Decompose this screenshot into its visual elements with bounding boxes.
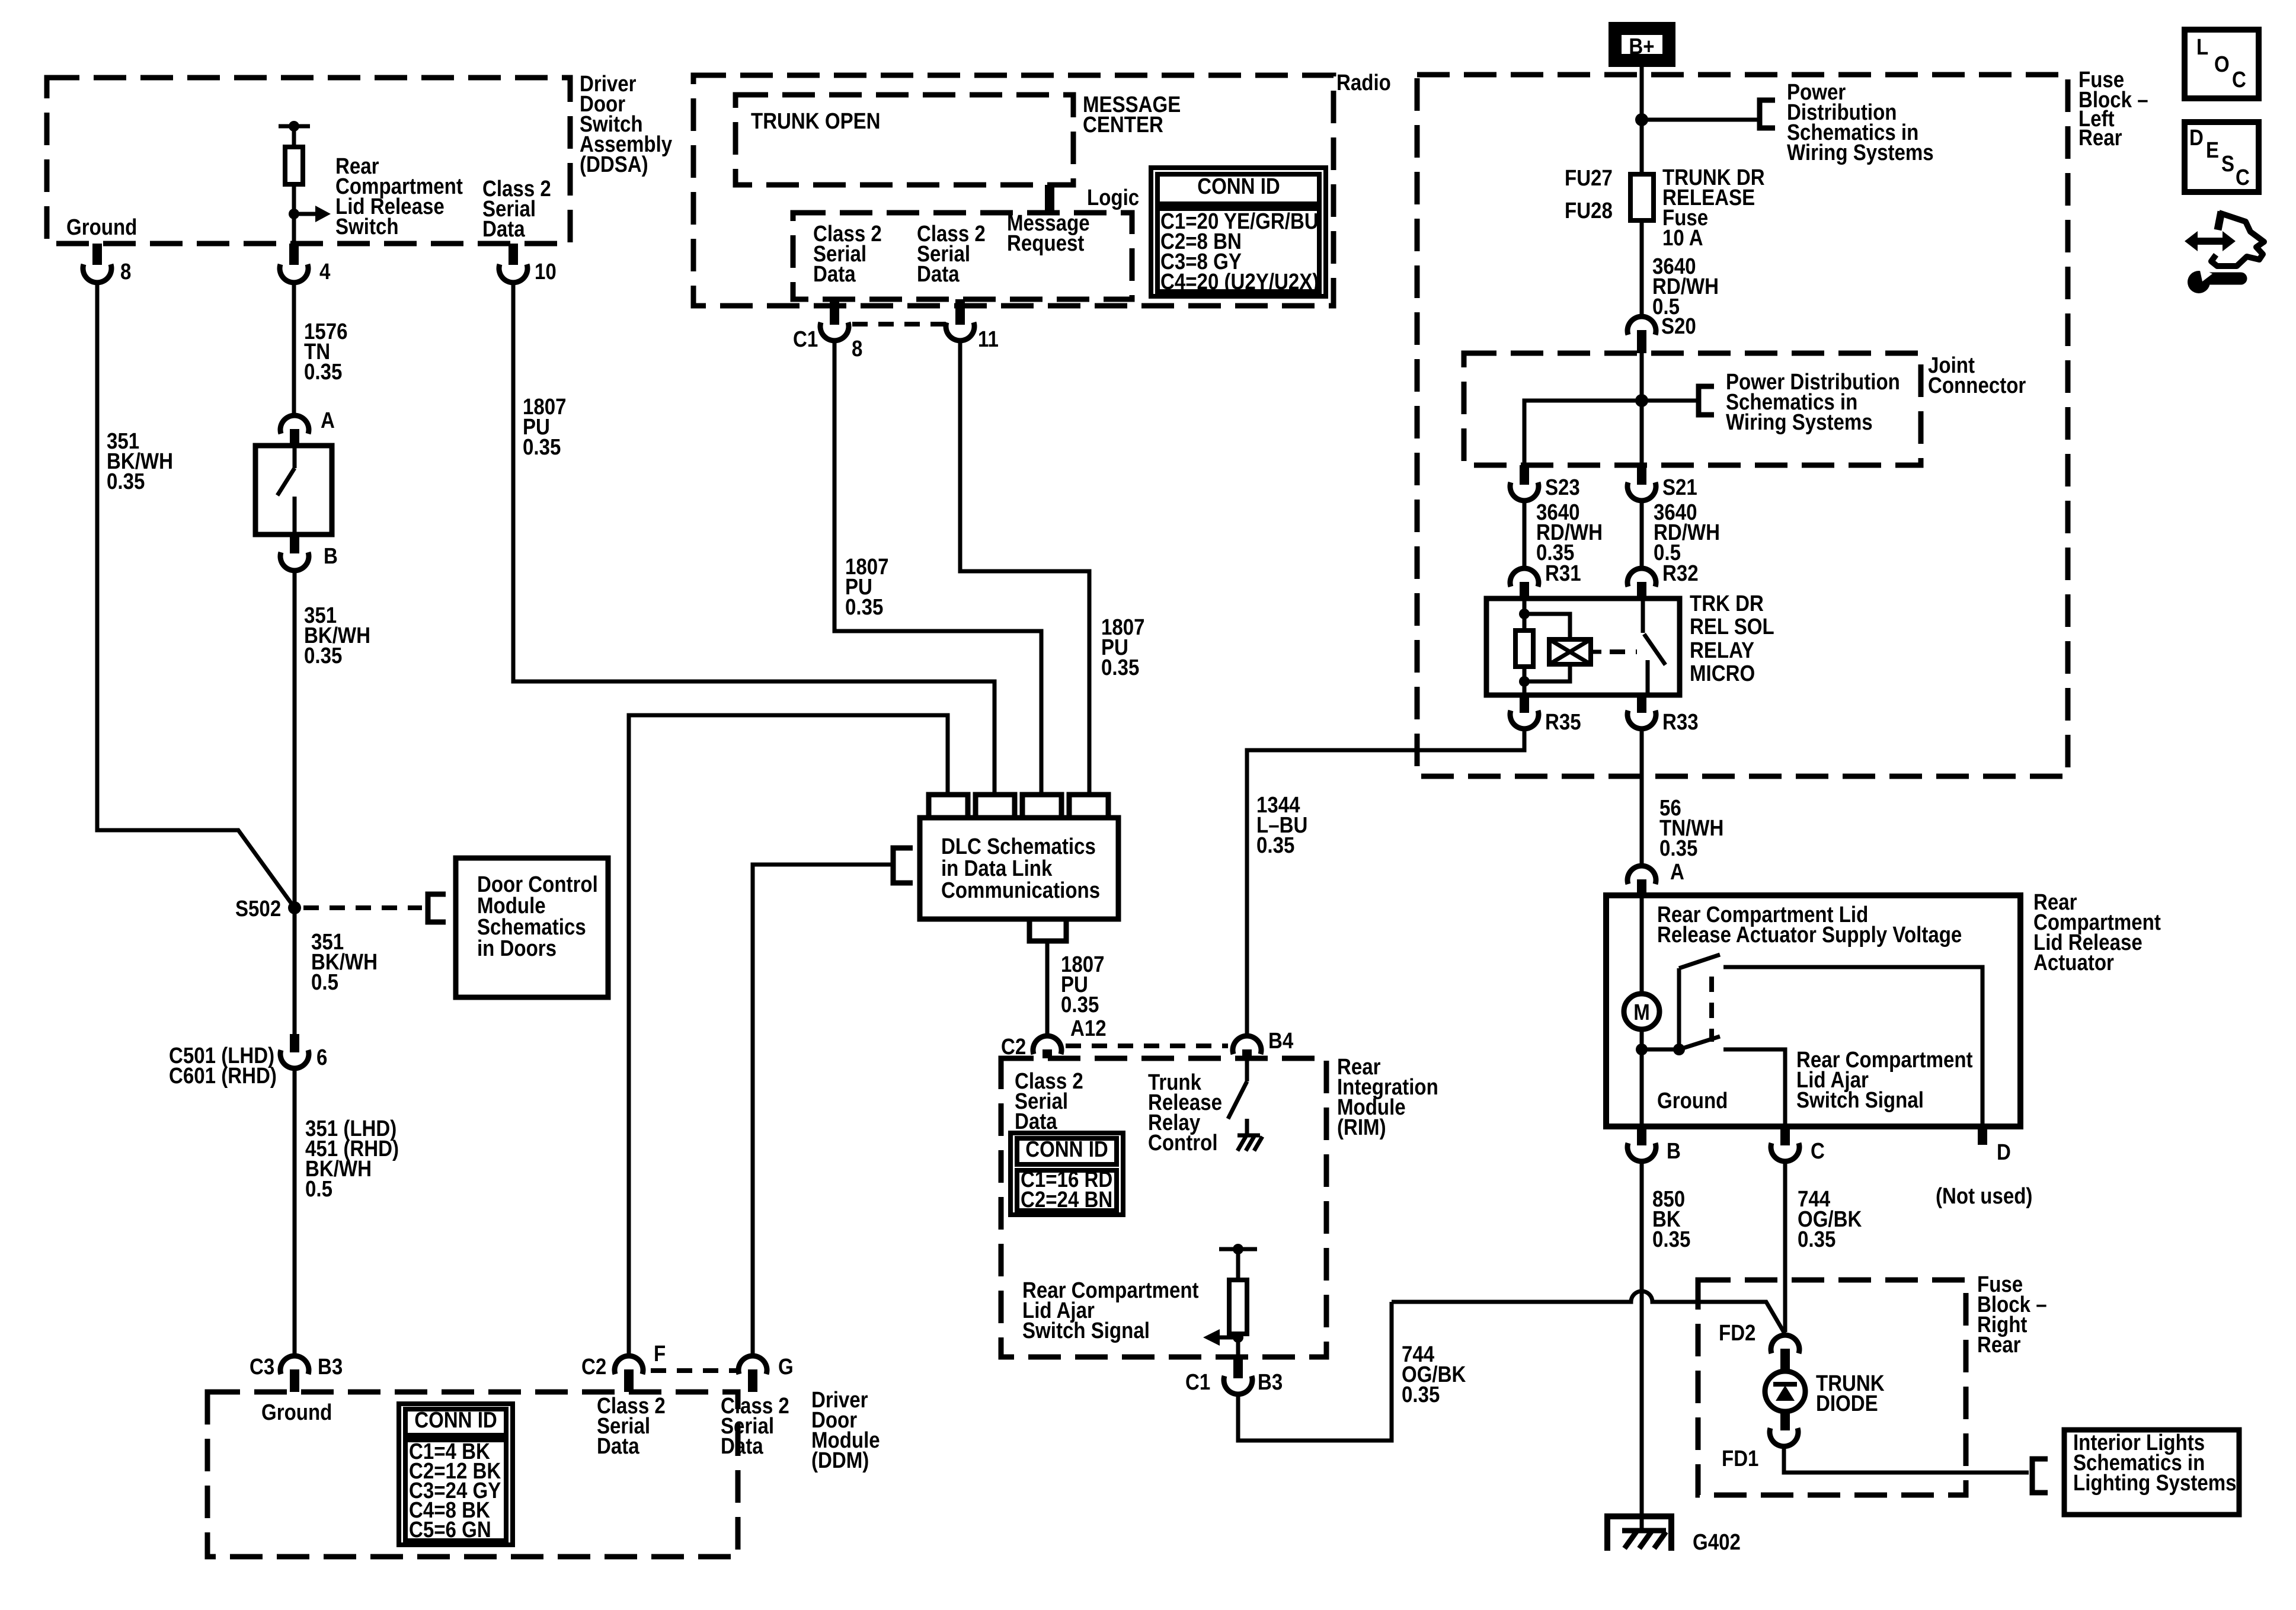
svg-text:A: A — [1670, 859, 1684, 885]
dashed link coil to contacts — [1610, 649, 1637, 654]
label 1344 L-BU 0.35 — [1256, 792, 1307, 858]
svg-text:D: D — [2189, 125, 2204, 151]
relay contacts switch — [1643, 598, 1665, 695]
svg-text:C: C — [2232, 67, 2246, 92]
svg-text:(DDSA): (DDSA) — [580, 152, 648, 177]
label 351 BK/WH 0.5 — [311, 929, 378, 995]
label 351 (LHD) 451 (RHD) BK/WH 0.5 — [305, 1116, 399, 1202]
svg-text:CENTER: CENTER — [1083, 112, 1163, 137]
switch box Rear Compartment Lid Release Switch — [255, 446, 332, 534]
svg-text:C2: C2 — [581, 1354, 606, 1379]
svg-text:S502: S502 — [235, 896, 281, 921]
svg-text:0.35: 0.35 — [1256, 833, 1294, 858]
svg-text:FD2: FD2 — [1719, 1320, 1755, 1346]
svg-text:L: L — [2196, 34, 2208, 60]
wire 744 horizontal with hop — [1392, 1291, 1785, 1333]
pin 10 connector — [499, 244, 557, 284]
box DLC Schematics reference — [920, 818, 1118, 919]
svg-text:Release Actuator Supply Voltag: Release Actuator Supply Voltage — [1657, 922, 1962, 948]
dashed link S502 to Door Control Module — [303, 905, 422, 910]
svg-text:0.35: 0.35 — [304, 359, 342, 385]
label 1807 PU 0.35 (DLC to RIM) — [1061, 952, 1105, 1017]
svg-text:Ground: Ground — [261, 1400, 332, 1425]
dashed link C1 to 11 — [852, 322, 946, 327]
splice S502 — [235, 896, 301, 921]
svg-text:A12: A12 — [1070, 1016, 1107, 1041]
svg-text:Rear: Rear — [2078, 125, 2122, 151]
wire ground 351 from pin 8 to S502 — [97, 283, 295, 908]
svg-text:FU28: FU28 — [1565, 198, 1613, 223]
svg-text:R31: R31 — [1545, 561, 1581, 586]
pin C2/F connector (DDM) — [581, 1341, 666, 1392]
power B+ terminal — [1615, 28, 1669, 60]
svg-text:MICRO: MICRO — [1690, 661, 1755, 686]
svg-text:4: 4 — [319, 259, 331, 284]
svg-text:Logic: Logic — [1087, 185, 1139, 210]
wire 1576 TN from pin 4 to A — [292, 283, 296, 415]
svg-text:0.5: 0.5 — [305, 1176, 332, 1202]
pin 11 connector (radio) — [946, 299, 999, 352]
box Fuse Block Left Rear — [1417, 67, 2148, 776]
svg-text:C: C — [2236, 165, 2250, 190]
label 351 BK/WH 0.35 (ground wire) — [107, 428, 173, 494]
svg-text:0.35: 0.35 — [1101, 655, 1139, 680]
icon LOC box — [2185, 30, 2259, 98]
svg-text:Communications: Communications — [941, 878, 1100, 903]
pin C connector (actuator) — [1771, 1126, 1825, 1164]
wire 351 below S502 — [293, 908, 297, 1034]
svg-text:R32: R32 — [1662, 561, 1699, 586]
ground chassis (in RIM) — [1237, 1135, 1262, 1151]
svg-text:C1: C1 — [793, 327, 818, 352]
svg-text:S: S — [2221, 151, 2234, 177]
box Rear Integration Module RIM — [1001, 1054, 1438, 1357]
svg-text:Wiring Systems: Wiring Systems — [1787, 140, 1934, 165]
diode trunk diode — [1765, 1371, 1885, 1416]
stub DLC bottom — [1029, 919, 1066, 941]
svg-text:Lighting Systems: Lighting Systems — [2073, 1470, 2236, 1496]
svg-text:Switch Signal: Switch Signal — [1796, 1087, 1924, 1113]
svg-text:0.35: 0.35 — [304, 643, 342, 668]
wire 1807 from radio pin11 to DLC stub4 — [960, 341, 1089, 795]
pin 8 connector — [83, 244, 131, 284]
wire 1807 DLC to RIM C2/A12 — [1045, 941, 1050, 1035]
label Power Distribution Schematics in Wiring Systems (joint) — [1726, 369, 1900, 435]
pin R35 — [1510, 695, 1581, 735]
svg-text:0.35: 0.35 — [1652, 1227, 1690, 1252]
switch lid ajar (actuator) — [1636, 955, 1720, 1055]
wire 744 from C to FD2 — [1783, 1162, 1787, 1332]
svg-text:FU27: FU27 — [1565, 165, 1613, 191]
node joint junction — [1635, 394, 1648, 407]
box Interior Lights reference — [2064, 1430, 2239, 1515]
pin C1/B3 connector (RIM) — [1185, 1357, 1283, 1395]
svg-text:11: 11 — [978, 327, 999, 352]
splice S20 — [1627, 313, 1696, 353]
svg-text:M: M — [1633, 1000, 1650, 1025]
stub DLC 4 — [1069, 795, 1108, 818]
pin D stub (actuator, not used) — [1936, 1126, 2032, 1209]
wire to power distribution bracket — [1642, 118, 1757, 122]
wire 1344 from R35 to RIM B4 — [1247, 729, 1524, 1035]
pin B4 connector (RIM) — [1233, 1028, 1293, 1058]
svg-text:Radio: Radio — [1336, 70, 1391, 95]
label Class 2 Serial Data (DDM G) — [721, 1393, 789, 1459]
table CONN ID (radio) — [1151, 168, 1326, 296]
relay coil solenoid — [1524, 614, 1601, 681]
motor M (actuator) — [1624, 895, 1659, 1126]
svg-text:B: B — [1667, 1138, 1681, 1164]
resistor lid ajar pull-up (in RIM) — [1203, 1244, 1257, 1357]
wire FD1 to interior lights — [1784, 1447, 2029, 1473]
wire supply voltage loop (actuator) — [1723, 967, 1982, 1126]
box Radio — [693, 70, 1391, 306]
box Rear Compartment Lid Release Actuator — [1606, 889, 2161, 1126]
label Class 2 Serial Data (DDSA pin 10) — [482, 176, 551, 242]
svg-text:in Doors: in Doors — [477, 936, 557, 961]
label 744 OG/BK 0.35 (C wire) — [1798, 1186, 1862, 1252]
label Rear Compartment Lid Ajar Switch Signal (RIM) — [1022, 1278, 1199, 1343]
pin B connector (actuator) — [1627, 1126, 1681, 1164]
svg-text:Data: Data — [721, 1433, 764, 1459]
label 1576 TN 0.35 — [304, 319, 348, 385]
svg-text:Rear: Rear — [1977, 1332, 2021, 1358]
svg-text:O: O — [2214, 52, 2230, 77]
pin 4 connector — [280, 244, 331, 284]
svg-text:Control: Control — [1148, 1130, 1218, 1156]
label Trunk Release Relay Control — [1148, 1070, 1222, 1156]
svg-text:C2: C2 — [1001, 1034, 1026, 1060]
svg-text:0.35: 0.35 — [523, 434, 561, 460]
pin G connector (DDM) — [738, 1354, 794, 1392]
svg-text:0.5: 0.5 — [311, 969, 338, 995]
label Class 2 Serial Data (RIM) — [1015, 1068, 1083, 1134]
svg-text:B: B — [324, 543, 338, 569]
link trunk open to logic — [1045, 185, 1054, 213]
svg-text:0.35: 0.35 — [1659, 836, 1697, 861]
pin R32 — [1627, 561, 1699, 598]
box Joint Connector — [1464, 353, 2026, 465]
svg-text:(DDM): (DDM) — [811, 1448, 869, 1473]
svg-text:0.35: 0.35 — [1798, 1227, 1835, 1252]
wire B+ feed — [1640, 67, 1644, 174]
svg-text:(RIM): (RIM) — [1337, 1115, 1386, 1140]
pin FD2 connector — [1719, 1320, 1799, 1372]
table CONN ID (RIM) — [1011, 1133, 1123, 1215]
svg-text:DIODE: DIODE — [1816, 1391, 1878, 1416]
pin C3/B3 connector (DDM ground) — [250, 1354, 343, 1392]
wire 850 BK from B to G402 — [1640, 1162, 1644, 1531]
svg-text:0.35: 0.35 — [845, 594, 883, 620]
svg-text:8: 8 — [120, 259, 131, 284]
wire 3640 S21 to R32 — [1640, 501, 1644, 568]
stub DLC 2 — [976, 795, 1015, 818]
pin FD1 connector — [1722, 1411, 1798, 1471]
svg-text:Ground: Ground — [1657, 1088, 1728, 1113]
svg-text:CONN ID: CONN ID — [414, 1407, 497, 1433]
label Power Distribution Schematics in Wiring Systems (top) — [1787, 79, 1934, 165]
wire 1807 from DDSA pin10 to DLC stub2 — [513, 283, 994, 795]
pin A connector (actuator) — [1627, 859, 1684, 895]
svg-text:10: 10 — [535, 259, 557, 284]
wire 3640 S23 to R31 — [1523, 501, 1527, 568]
svg-text:Switch: Switch — [335, 214, 399, 239]
label Class 2 Serial Data (DDM C2/F) — [597, 1393, 666, 1459]
wire 351/451 to DDM — [293, 1069, 297, 1355]
ground G402 — [1607, 1516, 1741, 1555]
box Driver Door Module DDM — [207, 1387, 880, 1557]
switch trunk release relay control (in RIM) — [1228, 1058, 1247, 1135]
box DDSA Driver Door Switch Assembly — [47, 71, 672, 244]
svg-text:B4: B4 — [1268, 1028, 1293, 1054]
label 744 OG/BK 0.35 (RIM) — [1402, 1342, 1466, 1407]
svg-text:6: 6 — [316, 1045, 327, 1070]
svg-text:C3: C3 — [250, 1354, 274, 1379]
bracket power distribution (top) — [1760, 100, 1775, 128]
svg-text:Actuator: Actuator — [2033, 950, 2114, 975]
pin R31 — [1510, 561, 1581, 598]
svg-text:F: F — [654, 1341, 666, 1366]
box TRUNK OPEN display — [736, 95, 1073, 185]
svg-text:Data: Data — [813, 261, 856, 287]
svg-text:G: G — [778, 1354, 794, 1379]
pin C2/A12 connector (RIM) — [1001, 1016, 1107, 1060]
wire from DDM G up to DLC left bracket — [753, 865, 893, 1355]
fuse FU27/FU28 TRUNK DR RELEASE 10A — [1565, 165, 1765, 251]
svg-text:Switch Signal: Switch Signal — [1022, 1318, 1150, 1343]
pin B connector (lid release switch) — [280, 534, 338, 571]
svg-text:CONN ID: CONN ID — [1025, 1137, 1108, 1162]
svg-text:10 A: 10 A — [1662, 225, 1703, 251]
wire lid ajar signal (actuator) — [1723, 1049, 1785, 1126]
label 3640 RD/WH 0.5 (right) — [1654, 500, 1720, 565]
relay K trunk release solenoid relay box — [1486, 591, 1774, 695]
svg-text:C601 (RHD): C601 (RHD) — [169, 1063, 277, 1089]
node junction to power distribution — [1635, 113, 1648, 126]
label 3640 RD/WH 0.35 — [1536, 500, 1603, 565]
wire 1807 from DDM C2/F to DLC stub1 — [629, 715, 948, 1355]
svg-text:Data: Data — [597, 1433, 640, 1459]
bracket interior lights — [2032, 1459, 2048, 1493]
svg-text:(Not used): (Not used) — [1936, 1183, 2032, 1209]
label Message Request — [1007, 210, 1090, 256]
pin A connector (lid release switch) — [280, 408, 335, 446]
box Door Control Module reference — [456, 858, 608, 997]
svg-text:S20: S20 — [1661, 313, 1696, 339]
wire joint branch left — [1524, 401, 1696, 465]
svg-text:0.35: 0.35 — [1402, 1382, 1440, 1407]
svg-text:CONN ID: CONN ID — [1197, 174, 1280, 199]
label 1807 PU 0.35 (pin10 wire) — [523, 394, 567, 460]
label Class 2 Serial Data (radio pin 8) — [813, 221, 882, 287]
dashed link F to G — [651, 1368, 737, 1373]
bracket to Door Control Module — [428, 894, 446, 922]
svg-text:B+: B+ — [1629, 34, 1654, 59]
label Class 2 Serial Data (radio pin 11) — [917, 221, 986, 287]
label MESSAGE CENTER — [1083, 92, 1181, 137]
svg-text:B3: B3 — [318, 1354, 343, 1379]
label Rear Compartment Lid Ajar Switch Signal (actuator) — [1796, 1047, 1973, 1113]
switch S rear compartment lid release switch (in DDSA) — [279, 121, 331, 244]
svg-text:C: C — [1811, 1138, 1825, 1164]
svg-text:S23: S23 — [1545, 475, 1580, 500]
stub DLC 1 — [929, 795, 968, 818]
svg-text:REL SOL: REL SOL — [1690, 614, 1774, 639]
svg-text:TRK DR: TRK DR — [1690, 591, 1764, 616]
stub DLC 3 — [1022, 795, 1061, 818]
svg-text:C1: C1 — [1185, 1369, 1210, 1395]
svg-text:Data: Data — [917, 261, 960, 287]
svg-text:0.35: 0.35 — [107, 469, 145, 494]
svg-text:E: E — [2206, 137, 2219, 163]
dashed link C2 to B4 — [1066, 1044, 1228, 1048]
label 850 BK 0.35 — [1652, 1186, 1690, 1252]
svg-text:C4=20 (U2Y/U2X): C4=20 (U2Y/U2X) — [1160, 269, 1319, 295]
pin C1/8 connector (radio) — [793, 299, 862, 361]
label 1807 PU 0.35 (radio pin11 wire) — [1101, 614, 1145, 680]
box Fuse Block Right Rear — [1698, 1272, 2047, 1495]
svg-text:Data: Data — [482, 216, 526, 242]
label 351 BK/WH 0.35 (below switch) — [304, 603, 370, 668]
svg-text:Data: Data — [1015, 1109, 1058, 1134]
bracket DLC left — [893, 848, 913, 883]
svg-text:Ground: Ground — [66, 215, 137, 240]
label Rear Compartment Lid Release Switch — [335, 153, 463, 239]
label 3640 RD/WH 0.5 — [1652, 254, 1719, 319]
svg-text:RELAY: RELAY — [1690, 638, 1754, 663]
label 56 TN/WH 0.35 — [1659, 795, 1723, 861]
svg-text:A: A — [321, 408, 335, 433]
svg-text:C5=6 GN: C5=6 GN — [409, 1517, 491, 1542]
splice S21 — [1627, 465, 1697, 501]
wire 3640 fuse to S20 — [1640, 220, 1644, 316]
svg-text:8: 8 — [852, 336, 862, 361]
svg-text:D: D — [1997, 1140, 2011, 1165]
connector C501/C601 pin 6 — [169, 1034, 327, 1089]
icon DESC box — [2185, 122, 2259, 192]
box Logic — [793, 185, 1139, 299]
wire 351 from B to S502 — [293, 571, 297, 908]
wire 1807 from radio pin8 to DLC stub3 — [834, 341, 1041, 795]
splice S23 — [1510, 465, 1580, 501]
svg-text:B3: B3 — [1258, 1369, 1283, 1395]
svg-text:0.35: 0.35 — [1061, 992, 1099, 1017]
svg-text:S21: S21 — [1662, 475, 1697, 500]
svg-text:R35: R35 — [1545, 709, 1581, 735]
wire 56 from R33 to actuator A — [1640, 729, 1644, 865]
svg-text:G402: G402 — [1693, 1529, 1741, 1555]
svg-text:R33: R33 — [1662, 709, 1699, 735]
bracket power distribution (joint) — [1699, 386, 1714, 415]
svg-text:Wiring Systems: Wiring Systems — [1726, 409, 1873, 435]
icon wrench — [2188, 268, 2241, 293]
svg-text:Connector: Connector — [1928, 373, 2026, 398]
wire 744 from RIM C1/B3 — [1238, 1302, 1392, 1441]
svg-text:C2=24 BN: C2=24 BN — [1021, 1187, 1112, 1212]
table CONN ID (DDM) — [399, 1404, 513, 1545]
relay coil resistor branch — [1515, 598, 1533, 695]
label 1807 PU 0.35 (radio pin8 wire) — [845, 554, 889, 620]
svg-text:FD1: FD1 — [1722, 1446, 1758, 1471]
svg-text:TRUNK OPEN: TRUNK OPEN — [751, 108, 881, 134]
svg-text:Request: Request — [1007, 231, 1085, 256]
wire joint connector internal — [1640, 353, 1644, 465]
icon body repair arrow — [2185, 212, 2264, 266]
pin R33 — [1627, 695, 1699, 735]
